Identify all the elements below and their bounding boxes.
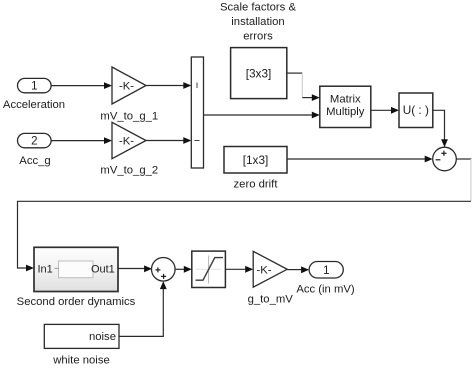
label zero drift xyxy=(234,179,279,191)
selector U( : ) xyxy=(399,93,433,128)
svg-text:-K-: -K- xyxy=(119,136,134,148)
svg-text:mV_to_g_2: mV_to_g_2 xyxy=(100,165,158,177)
inport 1 Acceleration xyxy=(18,78,52,92)
svg-text:-K-: -K- xyxy=(256,264,271,276)
wire subsystem Out1 to sum2 xyxy=(118,265,152,272)
label g_to_mV xyxy=(248,294,294,306)
noise source block xyxy=(44,324,119,348)
svg-text:white noise: white noise xyxy=(52,355,110,367)
svg-text:U( : ): U( : ) xyxy=(403,103,429,117)
label Acceleration xyxy=(3,99,65,111)
label mV_to_g_2 xyxy=(100,165,158,177)
svg-text:mV_to_g_1: mV_to_g_1 xyxy=(100,111,158,123)
svg-text:-K-: -K- xyxy=(119,81,134,93)
svg-text:Second order dynamics: Second order dynamics xyxy=(17,296,136,308)
svg-text:noise: noise xyxy=(89,331,116,343)
mux xyxy=(191,57,203,168)
svg-text:Acc (in mV): Acc (in mV) xyxy=(296,284,355,296)
wire sum2 to saturation xyxy=(175,266,192,273)
svg-text:In1: In1 xyxy=(38,263,53,275)
label mV_to_g_1 xyxy=(100,111,158,123)
outport 1 Acc (in mV) xyxy=(309,262,343,279)
wire 3x3 to matrix multiply xyxy=(287,73,320,101)
wire noise to sum2 (right then up) xyxy=(119,281,167,336)
svg-text:installation: installation xyxy=(231,16,284,28)
svg-text:1: 1 xyxy=(323,265,329,277)
wire mux to matrix multiply xyxy=(204,112,320,119)
wire selector to sum1 (right then down) xyxy=(433,110,448,147)
wire saturation to gain g_to_mV xyxy=(225,266,253,273)
gain g_to_mV xyxy=(253,251,287,287)
svg-text:1: 1 xyxy=(31,81,37,93)
svg-text:Matrix: Matrix xyxy=(330,94,361,106)
constant [1x3] zero drift xyxy=(224,147,287,174)
saturation block xyxy=(192,251,226,287)
svg-text:Out1: Out1 xyxy=(91,263,115,275)
wire 1x3 to sum1 xyxy=(287,156,433,163)
svg-text:[3x3]: [3x3] xyxy=(246,66,272,80)
sum S2 xyxy=(152,258,176,282)
label white noise xyxy=(52,355,110,367)
label Scale factors & installation errors xyxy=(220,2,296,43)
svg-text:Scale factors &: Scale factors & xyxy=(220,2,296,14)
inport 2 Acc_g xyxy=(18,133,52,147)
svg-text:g_to_mV: g_to_mV xyxy=(248,294,294,306)
subsystem Second order dynamics xyxy=(34,247,118,291)
svg-text:Acceleration: Acceleration xyxy=(3,99,65,111)
wire gain1 to mux xyxy=(146,82,191,89)
label Acc_g xyxy=(19,155,50,167)
wire matrix multiply to selector xyxy=(371,107,399,114)
svg-text:Acc_g: Acc_g xyxy=(19,155,50,167)
matrix multiply U2 xyxy=(320,86,371,127)
gain mV_to_g_1 xyxy=(112,67,146,104)
label Second order dynamics xyxy=(17,296,136,308)
wire inport1 to gain1 xyxy=(51,82,112,89)
svg-text:Multiply: Multiply xyxy=(326,106,365,118)
svg-text:errors: errors xyxy=(243,31,273,43)
wire inport2 to gain2 xyxy=(51,137,112,144)
svg-text:2: 2 xyxy=(31,136,37,148)
label Acc (in mV) xyxy=(296,284,355,296)
svg-text:[1x3]: [1x3] xyxy=(243,153,269,167)
gain mV_to_g_2 xyxy=(112,122,146,158)
wire gain2 to mux xyxy=(146,137,191,144)
wire gain to outport xyxy=(287,266,309,273)
constant [3x3] scale factors xyxy=(231,48,287,99)
svg-text:zero drift: zero drift xyxy=(234,179,279,191)
feedback wire sum1 to subsystem In1 xyxy=(18,159,472,271)
sum S1 xyxy=(433,147,457,171)
